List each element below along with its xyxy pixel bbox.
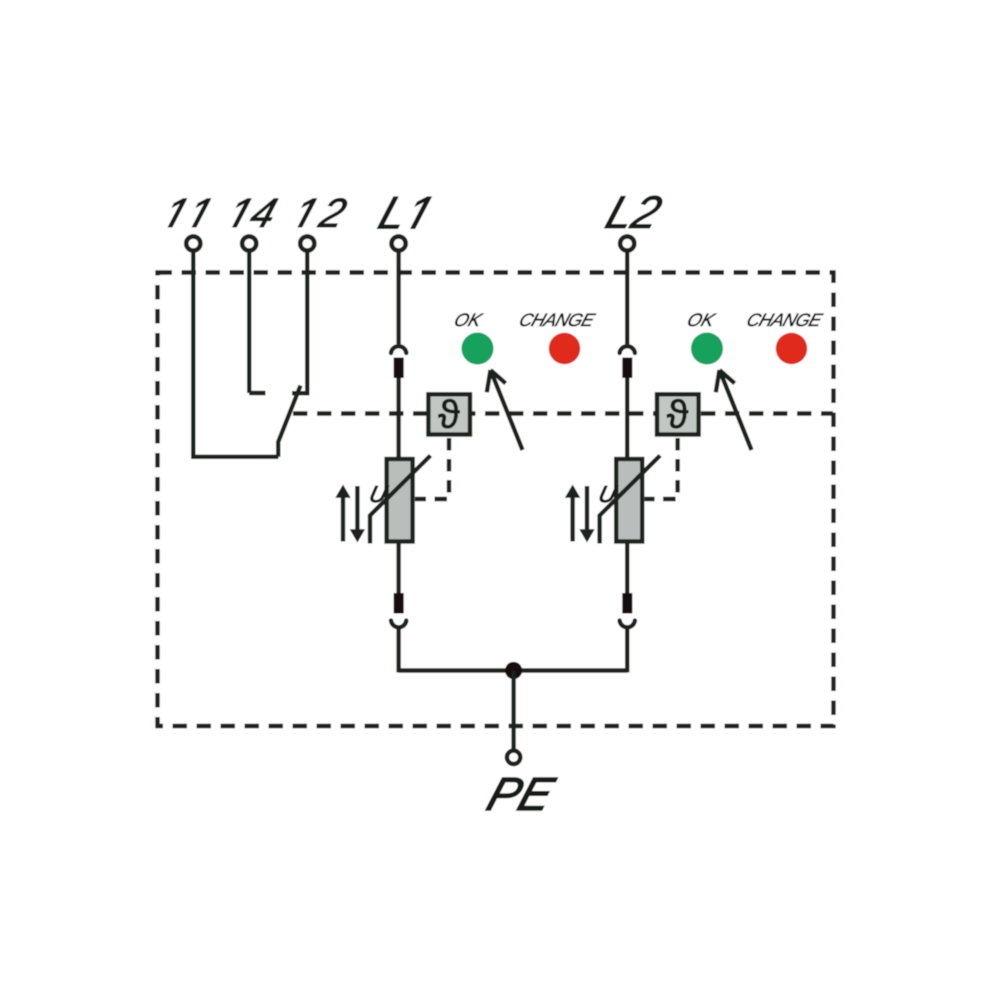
down arrow (varistor 2) bbox=[585, 486, 589, 534]
wire L2 to varistor bbox=[625, 378, 629, 458]
LED OK 1 label bbox=[455, 313, 483, 326]
label L2 bbox=[605, 196, 662, 228]
label 12 bbox=[298, 198, 347, 227]
wire L2 to PE bus bbox=[625, 628, 629, 672]
terminal L2 bbox=[620, 236, 634, 250]
theta glyph 2 bbox=[667, 399, 688, 428]
terminal PE bbox=[507, 751, 520, 764]
terminal 11 bbox=[186, 236, 200, 250]
label 11 bbox=[168, 199, 210, 227]
theta glyph 1 bbox=[438, 399, 459, 428]
varistor RU1 body bbox=[387, 459, 413, 542]
L1 thermal disconnect mark (lower) bbox=[394, 593, 404, 614]
terminal L1 bbox=[392, 236, 406, 250]
label U (varistor 2) bbox=[600, 486, 618, 502]
varistor RU1 diagonal bbox=[370, 456, 431, 544]
wire terminal 14 down with contact tick bbox=[249, 252, 265, 394]
enclosure dashed border bbox=[158, 273, 834, 727]
label 14 bbox=[233, 199, 278, 227]
up arrow (varistor 2) bbox=[570, 494, 574, 542]
up arrow (varistor 1) bbox=[341, 494, 345, 542]
indicator arrow 1 bbox=[487, 370, 523, 450]
wire L1 below varistor bbox=[396, 544, 400, 594]
L2 thermal disconnect mark (lower) bbox=[622, 593, 632, 614]
wire terminal 12 down with contact tick bbox=[292, 252, 307, 396]
LED green 2 bbox=[691, 333, 723, 365]
LED CHANGE 1 label bbox=[520, 314, 596, 327]
LED red 2 bbox=[776, 333, 807, 364]
wire junction to PE terminal bbox=[511, 671, 515, 750]
PE bus wire bbox=[399, 668, 628, 672]
thermal sensor box 1 bbox=[428, 394, 470, 434]
label PE bbox=[486, 778, 557, 810]
L1 disconnect fork (lower) bbox=[391, 621, 406, 628]
label U (varistor 1) bbox=[371, 486, 389, 502]
switch blade (changeover contact) bbox=[278, 386, 300, 457]
LED green 1 bbox=[462, 333, 494, 365]
terminal 12 bbox=[300, 236, 314, 250]
indicator arrow 2 bbox=[716, 370, 752, 450]
junction node bbox=[505, 662, 522, 679]
L1 disconnect fork (upper) bbox=[391, 346, 406, 353]
L2 disconnect fork (upper) bbox=[620, 346, 635, 353]
internal dashed signal line bbox=[293, 411, 833, 415]
L2 disconnect fork (lower) bbox=[620, 621, 635, 628]
LED CHANGE 2 label bbox=[748, 314, 824, 327]
down arrow (varistor 1) bbox=[355, 486, 359, 534]
dashed link sensor1 to varistor1 bbox=[415, 438, 449, 499]
varistor RU2 diagonal bbox=[600, 456, 661, 544]
wire terminal 11 down and along bottom to switch common bbox=[193, 252, 278, 457]
terminal 14 bbox=[242, 236, 256, 250]
wire L1 upper bbox=[396, 252, 400, 345]
dashed link sensor2 to varistor2 bbox=[645, 438, 678, 499]
varistor RU2 body bbox=[616, 459, 642, 542]
wire L2 upper bbox=[625, 252, 629, 345]
label L1 bbox=[377, 197, 431, 229]
L2 thermal disconnect mark (upper) bbox=[622, 358, 632, 379]
LED red 1 bbox=[549, 333, 580, 364]
LED OK 2 label bbox=[688, 313, 716, 326]
wire L2 below varistor bbox=[625, 544, 629, 594]
wire L1 to PE bus bbox=[396, 628, 400, 672]
thermal sensor box 2 bbox=[657, 394, 699, 434]
L1 thermal disconnect mark (upper) bbox=[394, 358, 404, 379]
wire L1 to varistor bbox=[396, 378, 400, 458]
